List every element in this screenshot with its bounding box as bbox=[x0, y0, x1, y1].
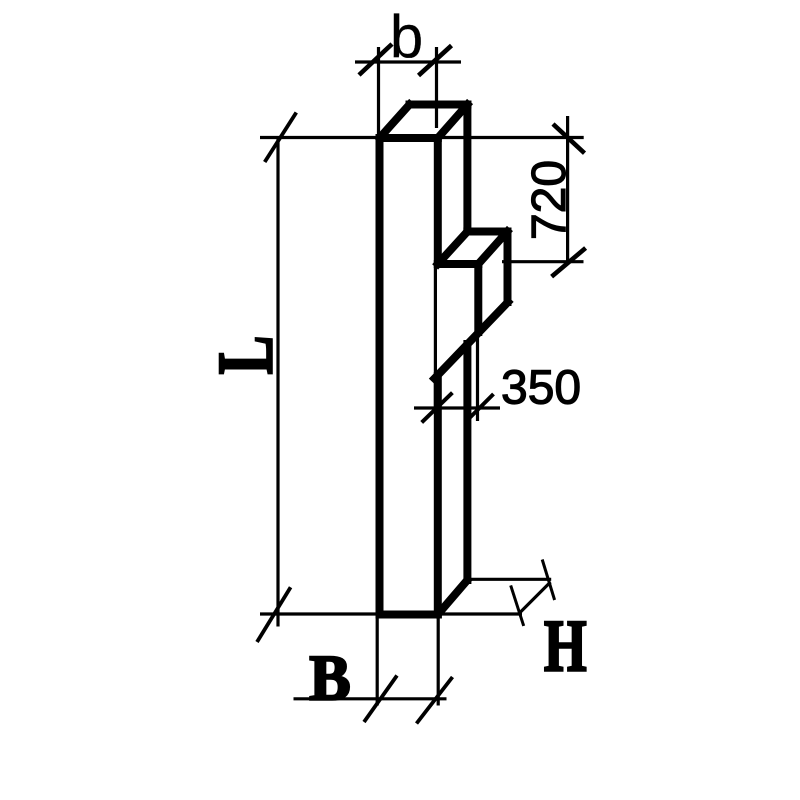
corbel top face right slant bbox=[478, 232, 507, 265]
svg-text:350: 350 bbox=[501, 362, 581, 415]
corbel underside slant bbox=[435, 302, 509, 379]
b left extension line bbox=[377, 47, 380, 134]
top face back edge bbox=[410, 101, 468, 109]
350 right extension line bbox=[476, 334, 479, 421]
column back-right edge upper bbox=[463, 105, 471, 232]
350 dimension line bbox=[414, 406, 500, 409]
B right extension line bbox=[437, 617, 440, 706]
svg-text:B: B bbox=[309, 642, 350, 714]
b dimension line bbox=[355, 60, 461, 63]
top dimension line (L top / 720 top) bbox=[260, 136, 584, 139]
tick 350 right bbox=[470, 394, 494, 418]
tick 350 left bbox=[422, 393, 453, 423]
720 vertical dimension line bbox=[566, 116, 569, 262]
corbel top back edge bbox=[467, 228, 507, 236]
svg-text:H: H bbox=[544, 606, 587, 688]
label L (rotated serif) bbox=[201, 336, 289, 375]
corbel top face left slant bbox=[438, 232, 468, 265]
corbel front-right edge bbox=[474, 264, 482, 332]
b right extension line bbox=[435, 47, 438, 128]
tick B right bbox=[417, 677, 453, 724]
column front top edge bbox=[380, 134, 438, 142]
column front-right edge upper bbox=[434, 138, 442, 264]
svg-text:720: 720 bbox=[523, 160, 576, 240]
column back-right edge lower bbox=[463, 344, 471, 580]
tick b right bbox=[419, 46, 452, 76]
column front-right edge lower bbox=[434, 376, 442, 615]
L left extension line bbox=[276, 139, 279, 627]
svg-text:b: b bbox=[390, 3, 423, 70]
bottom dimension line (L bottom / H lower ext) bbox=[260, 612, 522, 615]
B dimension line bbox=[294, 697, 447, 700]
tick b left bbox=[359, 44, 392, 75]
corbel top front edge bbox=[438, 260, 479, 268]
column front-left edge bbox=[376, 138, 384, 615]
H 45deg dimension line bbox=[519, 582, 551, 614]
B left extension line bbox=[376, 617, 379, 706]
corbel back-right edge bbox=[504, 232, 512, 303]
bottom-right slant edge bbox=[438, 580, 468, 615]
top face left slant bbox=[380, 105, 410, 139]
label H (serif) bbox=[544, 606, 587, 688]
720 lower extension line bbox=[502, 260, 584, 263]
tick L bottom bbox=[257, 587, 291, 642]
tick 720 top bbox=[553, 124, 585, 153]
top face right slant bbox=[438, 105, 468, 139]
svg-text:L: L bbox=[201, 336, 289, 375]
tick H upper bbox=[542, 560, 554, 601]
tick L top bbox=[265, 113, 297, 163]
tick 720 bottom bbox=[552, 248, 586, 277]
H upper extension line bbox=[467, 578, 551, 581]
label B (serif) bbox=[309, 642, 350, 714]
350 left extension line bbox=[434, 268, 437, 412]
column front bottom edge bbox=[380, 611, 438, 619]
tick B left bbox=[364, 676, 397, 723]
tick H lower bbox=[511, 585, 524, 626]
